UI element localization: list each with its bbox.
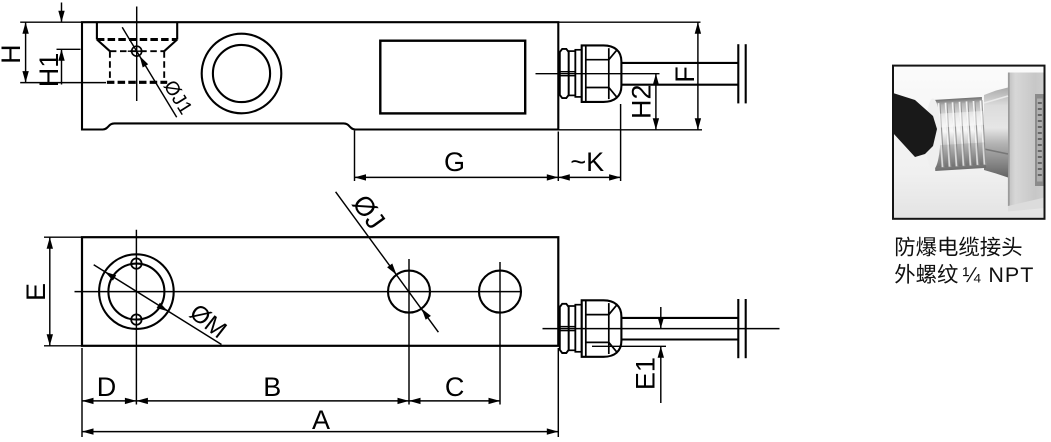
E extension top (44, 236, 82, 238)
G extension left (354, 131, 356, 182)
H2 arrow bottom (653, 118, 659, 130)
photo label slot (1035, 94, 1045, 186)
gland dome facet top (586, 50, 617, 59)
gland locknut facet lines (plan) (560, 326, 576, 328)
D arrow right (125, 398, 136, 404)
B dimension line (136, 400, 409, 402)
caption char 外 (895, 264, 915, 284)
H extension bottom (20, 82, 106, 84)
keyway circle bottom (131, 314, 141, 324)
B arrow right (398, 398, 410, 404)
H dimension line (25, 22, 27, 82)
H2 dimension line (655, 74, 657, 130)
H1 extension (57, 48, 81, 50)
gland ring (plan view) (575, 305, 581, 352)
counterbore chamfer right (164, 40, 177, 52)
hole bottom hidden line (107, 81, 167, 84)
counterbore bottom hidden line (97, 38, 177, 41)
hole center mark horizontal (128, 50, 146, 52)
bolt hole middle circle (388, 271, 430, 313)
cable end bar 2 (plan view) (745, 299, 747, 358)
leader arrow OJ upper (387, 264, 396, 275)
svg-text:H: H (0, 44, 26, 64)
G arrow right (547, 174, 559, 180)
C dimension line (409, 400, 500, 402)
E1 extension (592, 345, 666, 347)
E1 upper arrow (658, 317, 664, 329)
F extension top (558, 21, 700, 23)
gland locknut (top view) (560, 49, 569, 98)
caption char 防 (896, 237, 915, 257)
B arrow left (136, 398, 148, 404)
gland dome inner line 1 (585, 45, 587, 102)
D dimension line (82, 400, 136, 402)
F extension bottom (558, 129, 702, 131)
middle circle centerline (408, 259, 410, 405)
E1 lower pointer (660, 346, 662, 403)
svg-text:¼ NPT: ¼ NPT (963, 263, 1035, 287)
H extension top (20, 21, 82, 23)
photo frame (893, 66, 1045, 219)
leader line OJ (336, 192, 439, 332)
caption char 缆 (959, 237, 979, 257)
svg-text:F: F (670, 66, 700, 83)
K arrow left (558, 174, 570, 180)
svg-text:B: B (263, 372, 281, 402)
cable end bar 1 (top view) (737, 44, 739, 103)
caption char 头 (1002, 237, 1021, 256)
photo load cell block (1008, 73, 1045, 212)
mounting hole outer circle (99, 254, 174, 329)
vertical centerline big hole (135, 230, 137, 405)
load button outer circle (202, 34, 282, 114)
svg-text:E: E (21, 283, 51, 301)
svg-text:~K: ~K (570, 147, 604, 177)
caption char 纹 (938, 264, 958, 284)
leader arrow OJ1 (140, 56, 149, 68)
H1 lower arrow (58, 49, 64, 61)
hole left hidden line (109, 51, 111, 82)
D arrow left (82, 398, 94, 404)
photo cable (893, 93, 937, 157)
svg-text:E1: E1 (631, 357, 661, 390)
A extension right (557, 348, 559, 437)
nameplate rectangle (380, 41, 525, 114)
load cell body outline (side view) (82, 22, 558, 129)
E arrow top (47, 237, 53, 249)
H1 lower pointer (61, 49, 63, 84)
hole centerline (136, 7, 138, 102)
caption char 爆 (916, 237, 936, 257)
leader arrow OJ lower (422, 309, 431, 320)
H arrow top (22, 22, 28, 34)
G dimension line (355, 176, 559, 178)
E1 upper pointer (660, 307, 662, 329)
counterbore boss right wall (176, 22, 178, 39)
svg-text:C: C (445, 372, 465, 402)
load button inner circle (213, 45, 270, 102)
gland centerline (plan view) (543, 328, 780, 330)
photo background (893, 66, 1045, 219)
G arrow left (355, 174, 367, 180)
cable bottom line (top view) (621, 84, 738, 86)
H1 upper arrow (58, 11, 64, 23)
cable end bar 2 (top view) (745, 44, 747, 103)
counterbore chamfer left (97, 40, 110, 52)
C arrow right (489, 398, 501, 404)
bolt hole right circle (479, 271, 521, 313)
gland dome inner line 2 (plan) (608, 303, 610, 354)
A dimension line (82, 431, 558, 433)
gland locknut (plan view) (560, 304, 569, 353)
svg-text:G: G (444, 147, 465, 177)
leader line OM (94, 265, 222, 345)
caption char 接 (980, 237, 1000, 257)
load cell body outline (plan view) (82, 237, 558, 346)
leader line OJ1 (122, 27, 177, 117)
H arrow bottom (22, 71, 28, 83)
gland centerline (top view) (536, 73, 660, 75)
horizontal centerline (plan view) (75, 291, 522, 293)
keyway circle top (131, 258, 141, 268)
svg-text:H1: H1 (34, 53, 64, 88)
hole center mark circle (132, 46, 142, 56)
gland washer (plan view) (569, 306, 576, 350)
gland washer (top view) (569, 51, 576, 95)
svg-text:D: D (97, 372, 117, 402)
E extension bottom (44, 345, 82, 347)
cable top line (plan view) (621, 317, 738, 319)
H2 arrow top (653, 74, 659, 86)
hole top hidden line (110, 50, 164, 52)
G extension right (557, 132, 559, 182)
E dimension line (49, 237, 51, 346)
cable end bar 1 (plan view) (737, 299, 739, 358)
photo threaded stud (931, 97, 986, 171)
gland dome facet top (plan) (586, 305, 617, 314)
caption char 电 (940, 237, 958, 256)
F dimension line (697, 22, 699, 130)
gland locknut facet lines (560, 71, 576, 73)
K dimension line (558, 176, 620, 178)
leader arrow OM upper (105, 272, 116, 281)
H1 upper pointer (61, 3, 63, 23)
counterbore boss left wall (96, 22, 98, 39)
K extension right (620, 104, 622, 181)
photo hex cone (984, 88, 1008, 178)
mounting hole inner circle (108, 264, 164, 320)
svg-text:A: A (312, 405, 330, 435)
photo cable entry ring (926, 99, 941, 170)
F arrow bottom (695, 118, 701, 130)
E1 lower arrow (658, 346, 664, 358)
K arrow right (609, 174, 621, 180)
cable bottom line (plan view) (621, 338, 738, 340)
gland dome facet bottom (586, 88, 617, 97)
right circle centerline (499, 262, 501, 405)
gland dome (top view) (582, 45, 622, 102)
A extension left (81, 348, 83, 437)
leader arrow OM lower (157, 303, 168, 312)
C arrow left (409, 398, 421, 404)
svg-text:H2: H2 (627, 84, 657, 119)
hole right hidden line (163, 51, 165, 82)
gland ring (top view) (575, 50, 581, 97)
gland dome (plan view) (582, 300, 622, 357)
gland dome inner line 1 (plan) (585, 300, 587, 357)
E arrow bottom (47, 334, 53, 346)
F arrow top (695, 22, 701, 34)
A arrow right (547, 428, 559, 434)
caption char 螺 (916, 264, 936, 284)
gland dome facet bottom (plan) (586, 342, 617, 351)
cable top line (top view) (621, 62, 738, 64)
gland dome inner line 2 (608, 48, 610, 99)
A arrow left (82, 428, 94, 434)
